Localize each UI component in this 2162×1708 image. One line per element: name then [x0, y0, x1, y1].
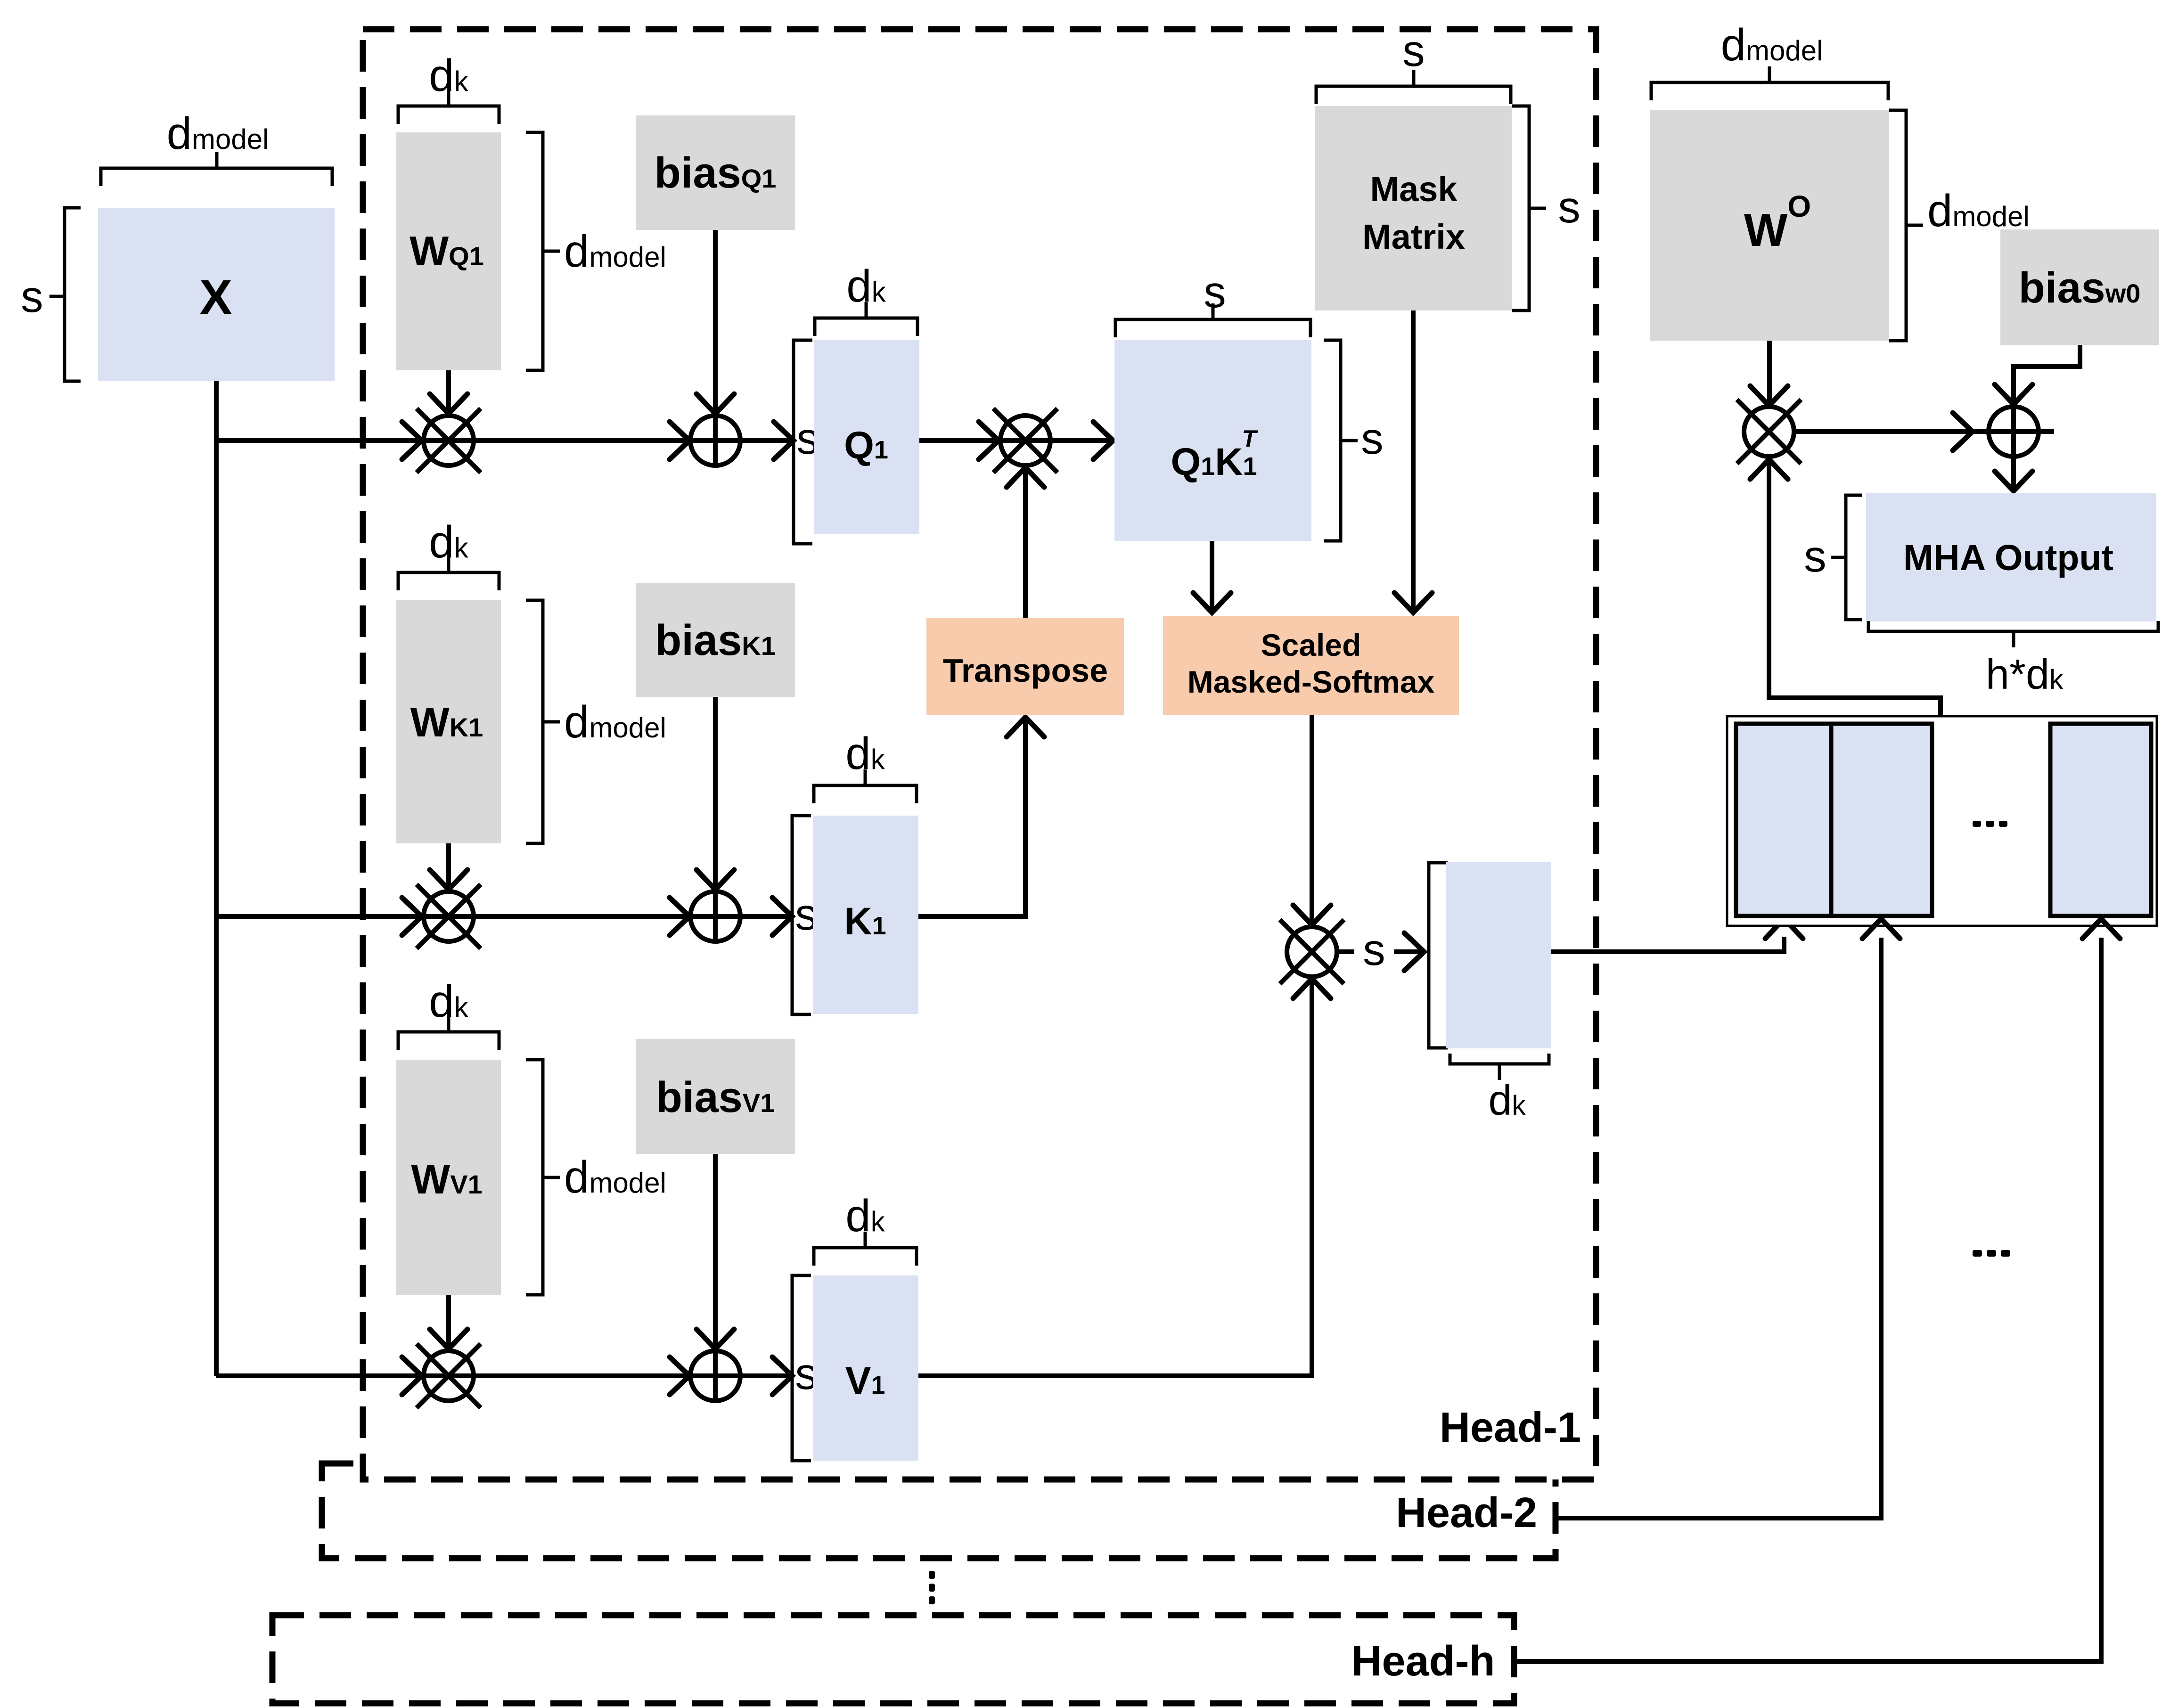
dots in concat box: [1973, 821, 2007, 827]
svg-text:s: s: [21, 272, 43, 322]
wire V1 to multiply SV: [918, 981, 1312, 1376]
wire bias_V1 to add: [713, 1154, 718, 1401]
matrix concat head-h slot: [2050, 724, 2151, 916]
matrix W_V1: [396, 1060, 501, 1295]
matrix concat head-1 slot: [1736, 724, 1831, 916]
wire bias_W0 to add O: [2014, 345, 2080, 490]
dashed box Head-h: [272, 1615, 1514, 1703]
bracket d_model right of W_Q1: [526, 132, 543, 370]
box Transpose: [926, 618, 1124, 715]
matrix K1: [813, 816, 918, 1014]
multiply node QK: [993, 409, 1057, 473]
multiply node O: [1737, 400, 1801, 464]
box concat outer: [1727, 716, 2157, 926]
dots between Head-2 and Head-h wires: [1973, 1250, 2010, 1257]
matrix V1: [813, 1275, 918, 1461]
svg-text:Transpose: Transpose: [943, 652, 1108, 689]
svg-text:Matrix: Matrix: [1362, 217, 1465, 256]
bracket d_k over W_K1: [398, 572, 499, 590]
wire K1 to Transpose: [918, 720, 1025, 916]
svg-text:h*dk: h*dk: [1986, 651, 2064, 698]
matrix MHA Output: [1866, 493, 2156, 621]
svg-text:Masked-Softmax: Masked-Softmax: [1187, 664, 1435, 699]
wire Head-2 to concat: [1556, 938, 1881, 1518]
bracket d_k under head output: [1450, 1054, 1549, 1064]
svg-text:Mask: Mask: [1370, 170, 1458, 209]
multiply node V row: [417, 1344, 481, 1408]
dashed box Head-2: [322, 1463, 1556, 1558]
svg-text:s: s: [1558, 182, 1581, 232]
wire multiply O to add O: [1795, 429, 2054, 434]
dashed box Head-1: [363, 29, 1596, 1479]
svg-text:Head-2: Head-2: [1396, 1489, 1537, 1536]
multiply node K row: [417, 884, 481, 948]
wire bias_Q1 to add: [713, 230, 718, 466]
matrix head-1 output: [1446, 862, 1551, 1048]
wire Mask Matrix to softmax: [1411, 311, 1416, 610]
add node K row: [690, 891, 740, 941]
svg-text:MHA Output: MHA Output: [1903, 538, 2113, 578]
svg-text:dmodel: dmodel: [1721, 20, 1823, 70]
vertical dots between Head-2 and Head-h boxes: [929, 1571, 935, 1604]
bracket d_model right of W_K1: [526, 600, 543, 843]
svg-text:s: s: [1363, 925, 1385, 975]
svg-text:s: s: [1402, 26, 1425, 76]
bracket d_k over K1: [814, 785, 917, 803]
bracket s right of Mask Matrix: [1512, 106, 1529, 311]
wire W_V1 to multiply: [446, 1295, 451, 1346]
matrix bias_Q1: [636, 115, 795, 230]
wire head-1 output to concat: [1551, 937, 1784, 952]
wire multiply SV to head output: [1338, 949, 1354, 954]
wire Transpose to multiply QK: [1023, 469, 1028, 618]
matrix Q1: [814, 340, 919, 534]
svg-text:Scaled: Scaled: [1261, 628, 1361, 662]
add node O: [1989, 407, 2039, 457]
svg-text:Head-h: Head-h: [1351, 1638, 1495, 1685]
wire W_O to multiply O: [1767, 341, 1772, 403]
matrix concat head-2 slot: [1831, 724, 1932, 916]
svg-text:s: s: [1804, 531, 1826, 581]
bracket d_k over W_Q1: [398, 106, 499, 124]
bracket S over Mask Matrix: [1316, 86, 1511, 104]
wire Q1K1T to softmax: [1210, 541, 1214, 610]
bracket s left of head output: [1429, 863, 1448, 1048]
matrix X: [98, 208, 335, 381]
wire W_Q1 to multiply: [446, 370, 451, 411]
bracket s left of V1: [792, 1275, 811, 1461]
bracket d_model right of W_O: [1889, 110, 1906, 341]
bracket s left of MHA Output: [1846, 495, 1862, 620]
bracket s left of K1: [792, 816, 811, 1014]
bracket h*dk under MHA Output: [1868, 621, 2158, 631]
matrix Mask Matrix: [1315, 106, 1512, 311]
matrix bias_W0: [2000, 229, 2159, 345]
matrix Q1K1T: [1114, 340, 1311, 541]
wire Head-h to concat: [1514, 938, 2101, 1661]
wire X output down: [214, 381, 219, 1376]
bracket S over Q1K1T: [1115, 319, 1310, 337]
wire concat to multiply O: [1769, 458, 1941, 716]
wire X to K1 row: [216, 914, 792, 919]
matrix bias_K1: [636, 583, 795, 697]
multiply node SV: [1280, 920, 1344, 984]
bracket s left of X: [65, 208, 81, 381]
svg-text:Head-1: Head-1: [1440, 1404, 1581, 1451]
matrix W_K1: [396, 600, 501, 843]
svg-text:dmodel: dmodel: [1927, 186, 2030, 236]
matrix W_O: [1650, 110, 1889, 341]
bracket d_k over W_V1: [398, 1032, 499, 1050]
bracket d_k over V1: [814, 1248, 917, 1266]
add node Q row: [690, 416, 740, 466]
wire W_K1 to multiply: [446, 843, 451, 887]
matrix bias_V1: [636, 1039, 795, 1154]
wire softmax to multiply SV: [1310, 715, 1314, 923]
bracket d_model over X: [101, 168, 332, 186]
matrix W_Q1: [396, 132, 501, 370]
wire X to Q1 row: [216, 438, 794, 443]
bracket s left of Q1: [794, 340, 812, 544]
wire Q1 to multiply QK: [919, 438, 1113, 443]
svg-text:dmodel: dmodel: [167, 108, 269, 159]
bracket d_model over W_O: [1651, 82, 1888, 100]
wire bias_K1 to add: [713, 697, 718, 941]
bracket d_model right of W_V1: [526, 1060, 543, 1295]
bracket d_k over Q1: [815, 318, 917, 336]
svg-text:s: s: [1361, 414, 1384, 464]
svg-text:X: X: [199, 270, 232, 325]
svg-text:s: s: [1204, 267, 1226, 317]
box Scaled Masked-Softmax: [1163, 616, 1459, 715]
arrow into MHA Output: [1995, 471, 2032, 491]
wire X to V1 row: [216, 1373, 792, 1378]
bracket s right of Q1K1T: [1324, 340, 1341, 541]
add node V row: [690, 1351, 740, 1401]
multiply node Q row: [417, 409, 481, 473]
